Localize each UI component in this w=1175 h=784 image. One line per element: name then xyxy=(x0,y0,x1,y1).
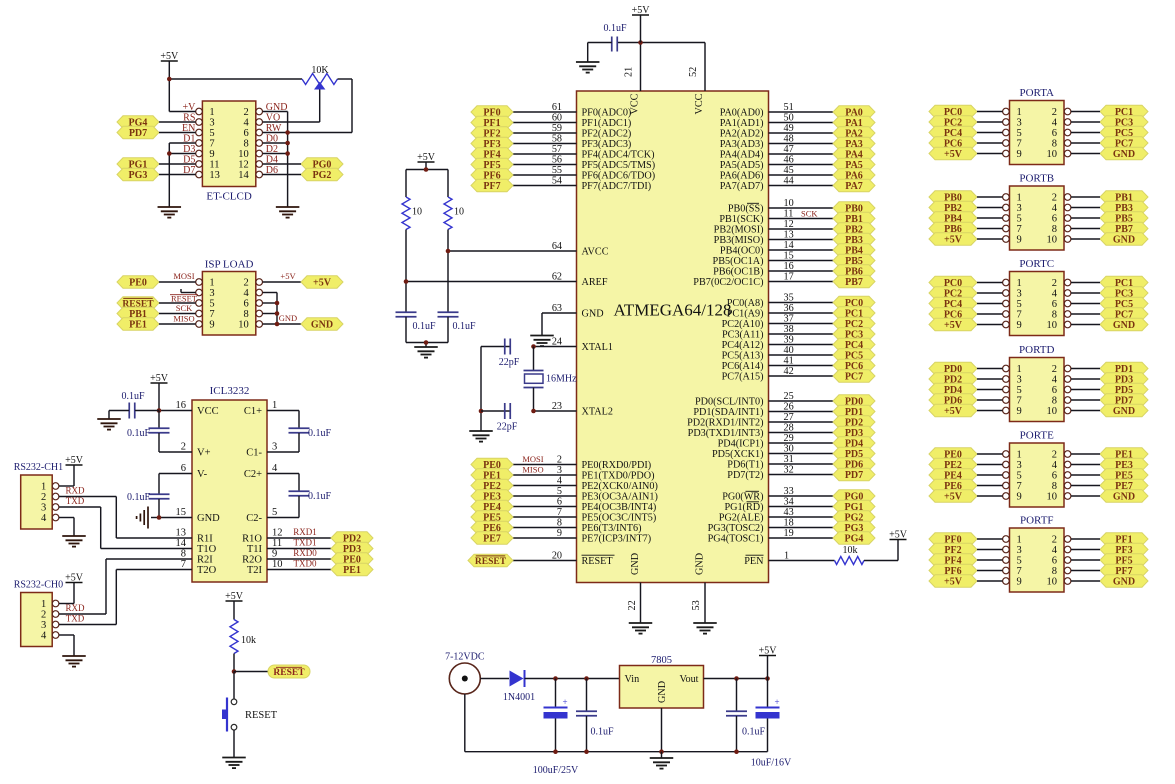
svg-text:PD0(SCL/INT0): PD0(SCL/INT0) xyxy=(695,397,763,408)
junction C10 out node xyxy=(765,676,770,681)
tag PA3 xyxy=(833,137,875,150)
label PORTB xyxy=(1019,173,1054,185)
connector PORTA body xyxy=(1010,101,1065,165)
U1 pin 6 PE4 xyxy=(513,497,656,514)
PORTE pin 4 xyxy=(1052,460,1071,471)
tag PF6 xyxy=(471,169,513,182)
junction D2-gnd xyxy=(285,151,290,156)
tag PE7 (PORTE R3) xyxy=(1100,479,1148,492)
svg-text:PB6(OC1B): PB6(OC1B) xyxy=(713,267,763,278)
PORTD pin 7 xyxy=(1003,396,1022,407)
svg-text:0.1uF: 0.1uF xyxy=(591,727,615,738)
tag PE3 (PORTE R1) xyxy=(1100,458,1148,471)
svg-text:GND: GND xyxy=(1113,406,1135,417)
tag PB0 (PORTB L0) xyxy=(929,191,977,204)
connector ISP LOAD body xyxy=(202,272,255,336)
svg-text:MOSI: MOSI xyxy=(522,454,543,464)
wire PD7 to EN xyxy=(159,132,196,134)
svg-text:5: 5 xyxy=(272,507,277,518)
svg-text:GND: GND xyxy=(279,313,297,323)
svg-text:15: 15 xyxy=(176,507,187,518)
connector RS232-CH1 body xyxy=(21,475,53,529)
svg-text:VCC: VCC xyxy=(630,93,641,114)
capacitor C 0.1uF (V+ pump) xyxy=(127,411,192,453)
svg-text:+5V: +5V xyxy=(944,320,963,331)
svg-text:PA3(AD3): PA3(AD3) xyxy=(720,139,764,150)
tag GND (PORTD R4) xyxy=(1100,404,1148,417)
wire rail to ground sym xyxy=(661,752,663,758)
svg-text:V+: V+ xyxy=(197,448,211,459)
ground (CH0) xyxy=(62,656,86,667)
tag +5V (PORTF L4) xyxy=(929,575,977,588)
svg-text:7: 7 xyxy=(1017,566,1022,577)
label 7-12VDC xyxy=(445,652,485,663)
svg-text:PC3(A11): PC3(A11) xyxy=(722,330,764,341)
tag PC2 (PORTA L1) xyxy=(929,116,977,129)
tag PC3 (PORTA R1) xyxy=(1100,116,1148,129)
wire PORTE R3 xyxy=(1071,485,1100,487)
RS232-CH0 pin 3 xyxy=(41,620,59,631)
capacitor C 0.1uF (AREF) xyxy=(396,312,436,342)
svg-text:2: 2 xyxy=(1052,535,1057,546)
svg-text:10: 10 xyxy=(272,559,283,570)
junction XTAL1 xyxy=(531,344,536,349)
tag PF0 (PORTF L0) xyxy=(929,533,977,546)
ET-CLCD pin 8 circle+number xyxy=(244,139,263,150)
junction rail c xyxy=(659,749,664,754)
RS232-CH1 pin 3 xyxy=(41,503,59,514)
wire PG4 to RS xyxy=(159,121,196,123)
ISP pin 1 circle+number xyxy=(196,278,215,289)
PORTA pin 5 xyxy=(1003,128,1022,139)
tag PC7 (chip) xyxy=(833,370,875,383)
svg-text:2: 2 xyxy=(181,442,186,453)
svg-text:7805: 7805 xyxy=(651,655,672,666)
wire pin3 stub + label RESET xyxy=(170,289,198,304)
ET-CLCD pin 7 circle+number xyxy=(196,139,215,150)
PORTD pin 6 xyxy=(1052,385,1071,396)
tag PB7 xyxy=(833,275,875,288)
tag PG2 (chip) xyxy=(833,511,875,524)
svg-text:PE4(OC3B/INT4): PE4(OC3B/INT4) xyxy=(582,502,657,513)
junction ISP gnd a xyxy=(275,301,280,306)
wire+label SCK xyxy=(159,303,196,314)
svg-text:RESET: RESET xyxy=(245,710,278,721)
U1 pin 17 PB7 xyxy=(693,272,833,289)
PORTC pin 9 xyxy=(1003,320,1022,331)
U1 pin 50 PA1 xyxy=(720,113,833,130)
svg-text:5: 5 xyxy=(1017,471,1022,482)
tag PG2 xyxy=(301,168,343,181)
ET-CLCD pin name D3 xyxy=(183,144,195,155)
svg-text:5: 5 xyxy=(1017,385,1022,396)
svg-text:XTAL1: XTAL1 xyxy=(582,342,613,353)
ET-CLCD pin 3 circle+number xyxy=(196,118,215,129)
wire PORTD R2 xyxy=(1071,389,1100,391)
PORTE pin 1 xyxy=(1003,450,1022,461)
ET-CLCD pin name D6 xyxy=(266,165,278,176)
svg-text:PA7: PA7 xyxy=(845,181,863,192)
svg-text:9: 9 xyxy=(209,320,214,331)
svg-text:MISO: MISO xyxy=(522,464,543,474)
resistor R-reset 10k xyxy=(230,620,256,654)
svg-text:PG2: PG2 xyxy=(313,170,332,181)
ground (VCC bypass) xyxy=(97,419,121,430)
svg-text:PD7: PD7 xyxy=(129,128,147,139)
svg-text:PG4(TOSC1): PG4(TOSC1) xyxy=(708,534,764,545)
U1 pin 36 PC1 xyxy=(727,303,833,320)
svg-text:TXD: TXD xyxy=(66,614,85,624)
junction C01 node xyxy=(584,676,589,681)
wire PORTC R0 xyxy=(1071,282,1100,284)
svg-text:TXD0: TXD0 xyxy=(294,559,317,569)
ground (pin63) xyxy=(530,336,554,347)
svg-text:4: 4 xyxy=(41,631,47,642)
svg-text:PC6(A14): PC6(A14) xyxy=(722,361,764,372)
svg-text:8: 8 xyxy=(1052,224,1057,235)
wire PORTE L2 xyxy=(977,474,1003,476)
PORTC pin 3 xyxy=(1003,289,1022,300)
svg-text:+5V: +5V xyxy=(944,149,963,160)
U1 pin 29 PD4 xyxy=(718,433,833,450)
wire PEN resistor to +5V xyxy=(864,540,898,561)
wire resistor to node xyxy=(233,654,235,672)
svg-text:3: 3 xyxy=(209,118,214,129)
svg-text:PA0(AD0): PA0(AD0) xyxy=(720,108,764,119)
capacitor C2 0.1uF xyxy=(267,474,332,518)
label PORTE xyxy=(1020,430,1054,442)
tag PF3 xyxy=(471,137,513,150)
wire CH1 pin4 to ground xyxy=(59,518,74,537)
ICL3232 pin 13 R1I xyxy=(176,528,214,545)
U1 pin 10 PB0 xyxy=(728,198,833,215)
svg-text:6: 6 xyxy=(1052,385,1057,396)
wire button to ground xyxy=(233,730,235,758)
wire PORTC R4 xyxy=(1071,324,1100,326)
svg-text:21: 21 xyxy=(624,67,635,77)
svg-text:RESET: RESET xyxy=(582,556,614,567)
tag PE1 (PORTE R0) xyxy=(1100,448,1148,461)
wire PORTF L1 xyxy=(977,549,1003,551)
svg-text:PORTE: PORTE xyxy=(1020,430,1054,442)
wire T2I + label TXD0 xyxy=(267,559,331,570)
svg-text:PF6(ADC6/TDO): PF6(ADC6/TDO) xyxy=(582,171,656,182)
PORTB pin 9 xyxy=(1003,235,1022,246)
wire GND pin2 rail xyxy=(263,112,288,208)
wire Vout rail xyxy=(704,678,768,680)
svg-text:2: 2 xyxy=(41,492,46,503)
tag RESET (chip) xyxy=(468,554,513,567)
tag +5V (PORTA L4) xyxy=(929,147,977,160)
wire PORTA L3 xyxy=(977,142,1003,144)
ET-CLCD pin name D1 xyxy=(183,134,195,145)
power +5V (CH1) xyxy=(65,455,84,466)
svg-text:R2O: R2O xyxy=(242,555,262,566)
PORTB pin 5 xyxy=(1003,214,1022,225)
svg-text:PB4(OC0): PB4(OC0) xyxy=(720,246,764,257)
ISP pin 9 circle+number xyxy=(196,320,215,331)
tag PB4 xyxy=(833,244,875,257)
wire CH0 RXD to R2I + label xyxy=(59,559,192,614)
wire PORTF L0 xyxy=(977,538,1003,540)
ET-CLCD pin 2 circle+number xyxy=(244,107,263,118)
wire PORTB R0 xyxy=(1071,196,1100,198)
tag PB2 (PORTB L1) xyxy=(929,201,977,214)
ground (crystal) xyxy=(469,431,493,442)
ET-CLCD pin name +V xyxy=(183,102,197,113)
ISP pin 8 circle+number xyxy=(244,309,263,320)
capacitor C 0.1uF (output) xyxy=(726,679,766,752)
PORTF pin 7 xyxy=(1003,566,1022,577)
U1 pin 23 XTAL2 xyxy=(552,401,613,418)
svg-text:PG0(WR): PG0(WR) xyxy=(722,492,763,503)
wire PORTF L2 xyxy=(977,559,1003,561)
tag PC2 (chip) xyxy=(833,317,875,330)
tag PC1 (PORTA R0) xyxy=(1100,105,1148,118)
PORTB pin 10 xyxy=(1047,235,1071,246)
ground (reset) xyxy=(222,758,246,769)
svg-text:0.1uF: 0.1uF xyxy=(742,727,766,738)
capacitor C 0.1uF (VCC bypass) xyxy=(121,391,145,419)
PORTE pin 9 xyxy=(1003,492,1022,503)
svg-text:6: 6 xyxy=(1052,556,1057,567)
7805 pin Vin xyxy=(625,674,640,685)
U1 pin 8 PE6 xyxy=(513,518,641,535)
PORTD pin 9 xyxy=(1003,406,1022,417)
junction AVCC xyxy=(446,249,451,254)
svg-text:RXD: RXD xyxy=(65,603,85,613)
ICL3232 pin 12 R1O xyxy=(242,528,282,545)
tag PA7 xyxy=(833,179,875,192)
wire +5V to resistor xyxy=(233,601,235,620)
svg-text:RESET: RESET xyxy=(273,668,305,678)
capacitor C 0.1uF (V- pump) xyxy=(127,492,170,503)
junction VCC rail xyxy=(638,40,643,45)
svg-text:7: 7 xyxy=(1017,310,1022,321)
tag RESET (ISP) xyxy=(117,297,159,310)
label 7805 xyxy=(651,655,672,666)
svg-text:10k: 10k xyxy=(843,545,858,556)
svg-text:0.1uF: 0.1uF xyxy=(452,321,476,332)
tag PG0 (chip) xyxy=(833,490,875,503)
svg-text:4: 4 xyxy=(272,463,278,474)
svg-text:PA1(AD1): PA1(AD1) xyxy=(720,118,764,129)
tag PA2 xyxy=(833,127,875,140)
ET-CLCD pin 5 circle+number xyxy=(196,128,215,139)
svg-text:3: 3 xyxy=(41,620,46,631)
regulator U2 7805 body xyxy=(620,666,704,709)
tag GND (PORTB R4) xyxy=(1100,233,1148,246)
U1 pin 26 PD1 xyxy=(693,402,833,419)
wire CH1 pin1 to +5V xyxy=(59,465,74,486)
svg-text:22: 22 xyxy=(627,600,638,610)
svg-text:GND: GND xyxy=(1113,492,1135,503)
svg-text:ATMEGA64/128: ATMEGA64/128 xyxy=(613,301,731,320)
svg-text:PG4: PG4 xyxy=(845,534,864,545)
svg-text:VCC: VCC xyxy=(197,406,219,417)
svg-text:1: 1 xyxy=(41,482,46,493)
wire PORTE L0 xyxy=(977,453,1003,455)
U1 pin 12 PB2 xyxy=(714,219,833,236)
power +5V (ICL) xyxy=(150,373,169,384)
PORTF pin 2 xyxy=(1052,535,1071,546)
tag PF1 xyxy=(471,116,513,129)
tag PG0 xyxy=(301,158,343,171)
svg-text:RXD: RXD xyxy=(65,486,85,496)
ISP pin 3 circle+number xyxy=(196,288,215,299)
svg-text:14: 14 xyxy=(238,170,249,181)
wire PORTB R4 xyxy=(1071,238,1100,240)
capacitor C 22pF (XTAL1) xyxy=(499,339,520,369)
ground (AVCC filter) xyxy=(414,347,438,358)
svg-text:+5V: +5V xyxy=(944,577,963,588)
tag PE4 (PORTE L2) xyxy=(929,469,977,482)
tag PC5 (chip) xyxy=(833,349,875,362)
tag GND (ISP) xyxy=(301,318,343,331)
U1 pin 44 PA7 xyxy=(720,176,833,193)
U1 pin 41 PC6 xyxy=(722,356,833,373)
svg-text:16MHz: 16MHz xyxy=(546,374,577,385)
capacitor C 100uF/25V xyxy=(533,679,579,777)
wire PORTD R3 xyxy=(1071,399,1100,401)
ground (CH1) xyxy=(62,536,86,547)
tag PA1 xyxy=(833,116,875,129)
U1 pin 63 GND xyxy=(552,303,604,320)
wire pin2 to +5V tag + label xyxy=(263,271,301,282)
svg-text:7: 7 xyxy=(1017,224,1022,235)
svg-text:+5V: +5V xyxy=(280,271,296,281)
PORTF pin 6 xyxy=(1052,556,1071,567)
tag PE1 (ISP) xyxy=(117,318,159,331)
svg-text:PC5(A13): PC5(A13) xyxy=(722,351,764,362)
PORTC pin 5 xyxy=(1003,299,1022,310)
svg-text:PE3(OC3A/AIN1): PE3(OC3A/AIN1) xyxy=(582,492,658,503)
wire ground rail (supply) xyxy=(465,694,768,752)
PORTC pin 4 xyxy=(1052,289,1071,300)
tag PE5 (PORTE R2) xyxy=(1100,469,1148,482)
connector PORTE body xyxy=(1010,443,1065,507)
svg-text:2: 2 xyxy=(1052,107,1057,118)
tag PF2 (PORTF L1) xyxy=(929,543,977,556)
U1 pin 16 PB6 xyxy=(713,261,833,278)
svg-text:XTAL2: XTAL2 xyxy=(582,407,613,418)
wire +5V to VCC pin16 xyxy=(159,383,192,411)
tag PG3 (chip) xyxy=(833,521,875,534)
ET-CLCD pin 12 circle+number xyxy=(238,160,262,171)
U1 pin 3 PE1 xyxy=(513,465,655,482)
label PORTC xyxy=(1019,258,1054,270)
PORTD pin 8 xyxy=(1052,396,1071,407)
tag GND (PORTF R4) xyxy=(1100,575,1148,588)
tag PD5 (PORTD R2) xyxy=(1100,383,1148,396)
PORTB pin 1 xyxy=(1003,193,1022,204)
tag PC6 (PORTA L3) xyxy=(929,137,977,150)
svg-text:+: + xyxy=(563,697,568,707)
power +5V (supply out) xyxy=(759,646,778,679)
U1 pin 51 PA0 xyxy=(720,102,833,119)
PORTC pin 6 xyxy=(1052,299,1071,310)
junction VCC node xyxy=(157,408,162,413)
DC jack J-PWR xyxy=(449,663,480,694)
svg-text:0.1uF: 0.1uF xyxy=(412,321,436,332)
svg-text:2: 2 xyxy=(1052,193,1057,204)
svg-text:22pF: 22pF xyxy=(499,357,520,368)
tag PC3 (PORTC R1) xyxy=(1100,287,1148,300)
PORTF pin 1 xyxy=(1003,535,1022,546)
PORTB pin 8 xyxy=(1052,224,1071,235)
junction AREF xyxy=(404,279,409,284)
ET-CLCD pin 13 circle+number xyxy=(196,170,220,181)
ground (VCC cap) xyxy=(576,62,600,73)
svg-text:PF7(ADC7/TDI): PF7(ADC7/TDI) xyxy=(582,181,652,192)
junction +5V avcc xyxy=(424,167,429,172)
svg-text:PB0(SS): PB0(SS) xyxy=(728,204,764,215)
7805 pin GND xyxy=(657,681,668,703)
wire D2 to gnd rail xyxy=(263,153,288,155)
svg-text:4: 4 xyxy=(1052,375,1058,386)
wire RESET to pin5 xyxy=(159,302,196,304)
U1 pin 49 PA2 xyxy=(720,123,833,140)
U1 pin 28 PD3 xyxy=(688,423,833,440)
svg-text:PA6(AD6): PA6(AD6) xyxy=(720,171,764,182)
U1 pin 11 PB1 xyxy=(719,209,833,226)
svg-text:0.1uF: 0.1uF xyxy=(308,491,332,502)
svg-text:PD2(RXD1/INT2): PD2(RXD1/INT2) xyxy=(687,418,763,429)
PORTB pin 4 xyxy=(1052,203,1071,214)
svg-text:10: 10 xyxy=(1047,235,1058,246)
wire PORTD L4 xyxy=(977,410,1003,412)
svg-text:5: 5 xyxy=(1017,214,1022,225)
PORTB pin 7 xyxy=(1003,224,1022,235)
svg-text:GND: GND xyxy=(1113,149,1135,160)
PORTA pin 3 xyxy=(1003,118,1022,129)
U1 pin 21 VCC xyxy=(624,43,641,115)
svg-text:8: 8 xyxy=(244,139,249,150)
svg-text:6: 6 xyxy=(1052,299,1057,310)
tag +5V (PORTC L4) xyxy=(929,318,977,331)
tag PF6 (PORTF L3) xyxy=(929,564,977,577)
svg-text:PF4(ADC4/TCK): PF4(ADC4/TCK) xyxy=(582,150,655,161)
RS232-CH0 pin 1 xyxy=(41,599,59,610)
junction C100 node xyxy=(553,676,558,681)
power +5V (AVCC) xyxy=(417,152,436,163)
svg-text:GND: GND xyxy=(1113,577,1135,588)
capacitor C1 0.1uF xyxy=(267,411,332,453)
wire R2O + label RXD0 xyxy=(267,548,331,559)
capacitor C 0.1uF (AVCC) xyxy=(438,312,476,342)
wire cap to ground xyxy=(109,411,159,420)
wire PORTE L1 xyxy=(977,464,1003,466)
tag PB7 (PORTB R3) xyxy=(1100,222,1148,235)
U1 pin 54 PF7 xyxy=(513,176,651,193)
U1 pin 31 PD6 xyxy=(727,454,833,471)
PORTD pin 5 xyxy=(1003,385,1022,396)
tag GND (PORTA R4) xyxy=(1100,147,1148,160)
U1 pin 35 PC0 xyxy=(727,293,833,310)
svg-text:2: 2 xyxy=(1052,364,1057,375)
svg-text:C2-: C2- xyxy=(246,513,262,524)
svg-text:10: 10 xyxy=(238,149,249,160)
ground (ICL sideways) xyxy=(137,507,148,529)
wire R1O + label RXD1 xyxy=(267,527,331,538)
wire PORTE R2 xyxy=(1071,474,1100,476)
junction rail d xyxy=(734,749,739,754)
svg-text:R1I: R1I xyxy=(197,534,213,545)
wire PORTA L4 xyxy=(977,153,1003,155)
svg-text:PB3(MISO): PB3(MISO) xyxy=(714,235,764,246)
ISP pin 6 circle+number xyxy=(244,299,263,310)
wire PG3 to D7 xyxy=(159,174,196,176)
